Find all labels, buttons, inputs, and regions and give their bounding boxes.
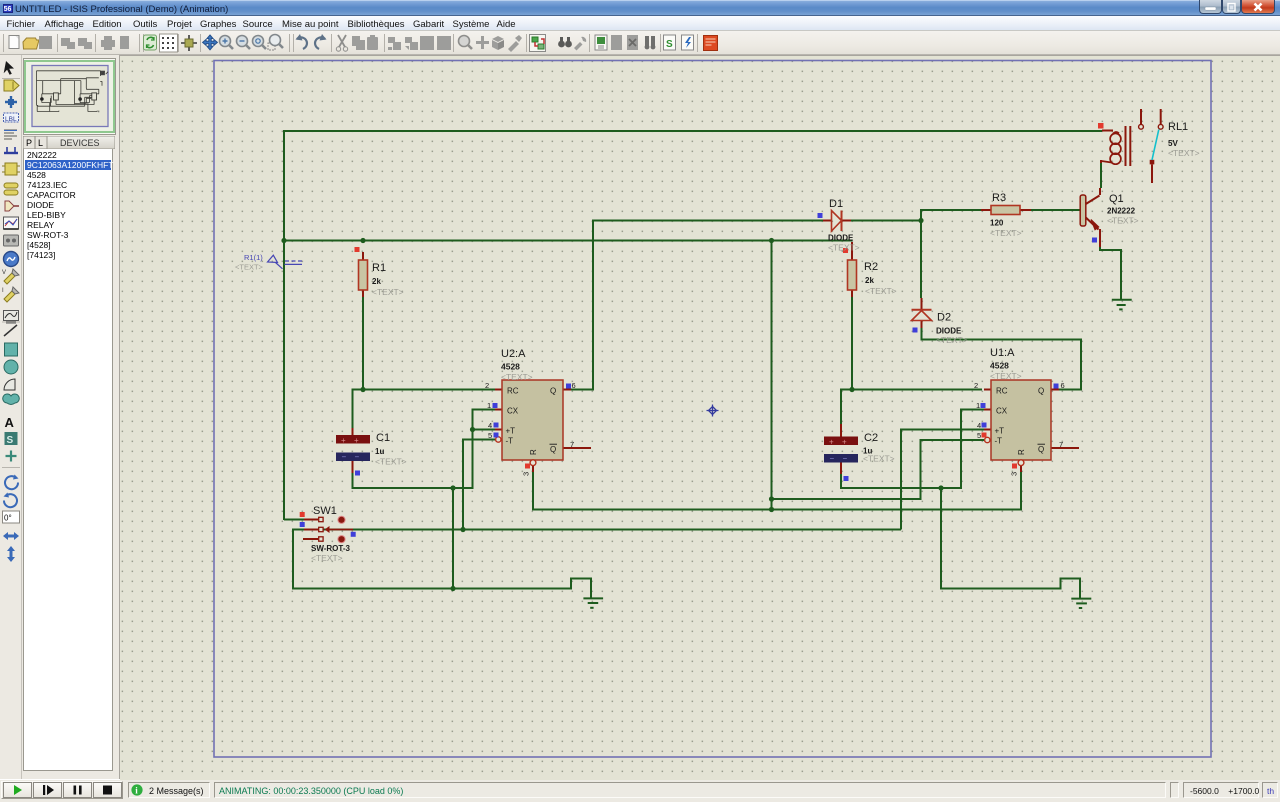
svg-text:4: 4 [488, 421, 492, 430]
svg-text:D1: D1 [829, 198, 843, 210]
svg-text:SW1: SW1 [313, 505, 337, 517]
svg-text:<TEXT>: <TEXT> [865, 286, 897, 296]
wire VCC top rail [284, 130, 1102, 132]
svg-text:Q: Q [1038, 445, 1044, 454]
svg-text:120: 120 [990, 219, 1004, 228]
svg-text:<TEXT>: <TEXT> [375, 457, 407, 467]
svg-text:DIODE: DIODE [828, 234, 854, 243]
svg-text:1u: 1u [375, 447, 384, 456]
svg-text:S: S [7, 435, 14, 446]
relay RL1 [1098, 109, 1200, 183]
svg-text:5: 5 [977, 431, 981, 440]
svg-text:2: 2 [485, 381, 489, 390]
resistor R2 [843, 242, 897, 297]
svg-text:SW-ROT-3: SW-ROT-3 [311, 544, 351, 553]
svg-text:U1:A: U1:A [990, 347, 1015, 359]
wire right ground jog [1061, 578, 1081, 598]
svg-text:7: 7 [570, 440, 574, 449]
svg-text:Q1: Q1 [1109, 193, 1124, 205]
wire R3 right to Q1 base [1030, 209, 1081, 211]
svg-text:C1: C1 [376, 432, 390, 444]
svg-text:3: 3 [522, 472, 531, 476]
wire riser x900 to U1 +T [900, 430, 984, 530]
svg-text:2N2222: 2N2222 [1107, 207, 1136, 216]
wire R1 bottom to RC line [362, 296, 364, 390]
menu bar [0, 16, 1280, 31]
wire C2 top [840, 390, 842, 425]
svg-text:5: 5 [488, 431, 492, 440]
svg-text:R2: R2 [864, 261, 878, 273]
wire D1 rail [592, 220, 921, 222]
left toolbar [0, 55, 22, 779]
svg-text:L: L [38, 138, 43, 148]
svg-text:<TEXT>: <TEXT> [936, 335, 968, 345]
wire left drop to bottom bus [292, 529, 294, 589]
wire U1 Q riser [1059, 339, 1082, 390]
svg-text:RL1: RL1 [1168, 121, 1188, 133]
wire left ground jog [571, 579, 591, 598]
svg-text:<TEXT>: <TEXT> [863, 454, 895, 464]
voltage probe R1(1) [235, 253, 302, 272]
wire C1/pin4 drop to bus [452, 488, 454, 589]
svg-text:A: A [5, 415, 15, 430]
resistor R3 [981, 192, 1031, 238]
svg-text:Q: Q [550, 387, 556, 396]
wire R2 bottom [851, 296, 853, 390]
svg-text:I: I [2, 288, 4, 294]
svg-text:<TEXT>: <TEXT> [311, 553, 343, 563]
svg-text:<TEXT>: <TEXT> [235, 263, 264, 272]
svg-text:+: + [842, 438, 847, 447]
sheet border [214, 61, 1211, 758]
svg-text:−: − [830, 454, 835, 463]
monostable U1:A 4528 [974, 347, 1079, 476]
svg-text:2k: 2k [865, 276, 874, 285]
wire x920 D1 to R3/D2 [920, 210, 922, 299]
capacitor C1 [336, 428, 407, 476]
origin marker [707, 405, 719, 417]
ground right [1071, 599, 1091, 608]
svg-text:7: 7 [1059, 440, 1063, 449]
wire reset riser x770 [771, 241, 773, 510]
svg-text:−: − [355, 453, 360, 462]
svg-text:-T: -T [506, 437, 514, 446]
svg-text:R3: R3 [992, 192, 1006, 204]
svg-text:<TEXT>: <TEXT> [828, 243, 860, 253]
svg-text:-T: -T [995, 437, 1003, 446]
wire C1 to pin4 riser [352, 410, 473, 490]
wire C1 top [352, 389, 354, 429]
svg-text:DEVICES: DEVICES [60, 138, 100, 148]
wire U2 +T pin4 [472, 429, 496, 431]
svg-text:<TEXT>: <TEXT> [501, 372, 533, 382]
wire RC line U2 [352, 389, 497, 391]
svg-text:0°: 0° [4, 514, 12, 523]
diode D1 [818, 198, 860, 253]
ground left [583, 598, 603, 607]
svg-text:−: − [843, 454, 848, 463]
junction dots [281, 218, 943, 591]
svg-text:R: R [529, 449, 538, 455]
wire U1 CX riser x960 [960, 410, 984, 489]
wire left vertical to SW1 [283, 130, 285, 520]
svg-text:<TEXT>: <TEXT> [990, 371, 1022, 381]
svg-text:C2: C2 [864, 432, 878, 444]
svg-text:+: + [341, 436, 346, 445]
svg-text:6: 6 [572, 381, 576, 390]
ground Q1 emitter [1112, 300, 1132, 310]
wire U2 -T pin5 [463, 439, 495, 530]
wire C1 bottom [352, 472, 354, 488]
svg-text:CX: CX [507, 407, 519, 416]
svg-text:V: V [2, 270, 6, 276]
side panel [22, 55, 119, 779]
svg-text:2: 2 [974, 381, 978, 390]
svg-text:Q: Q [550, 445, 556, 454]
svg-text:4528: 4528 [501, 362, 520, 372]
svg-text:U2:A: U2:A [501, 348, 526, 360]
diode D2 [912, 298, 968, 345]
wire bottom bus left [292, 588, 571, 590]
svg-text:4528: 4528 [990, 361, 1009, 371]
toolbar [0, 31, 1280, 55]
wire D2 bottom to U1 Q rail [921, 327, 1082, 340]
svg-text:+: + [829, 438, 834, 447]
wire R net bus [532, 509, 1022, 511]
wire C2 drop to right ground [940, 488, 1061, 588]
svg-text:<TEXT>: <TEXT> [1107, 216, 1139, 226]
wire SW1 top connect [284, 519, 305, 521]
svg-text:−: − [342, 453, 347, 462]
title bar [0, 0, 1280, 16]
svg-text:+T: +T [995, 427, 1005, 436]
svg-text:LBL: LBL [5, 116, 17, 123]
svg-text:Q: Q [1038, 387, 1044, 396]
svg-text:1: 1 [487, 401, 491, 410]
svg-text:<TEXT>: <TEXT> [1168, 148, 1200, 158]
svg-text:+: + [354, 436, 359, 445]
status bar [1277, 56, 1280, 779]
transistor Q1 2N2222 [1080, 188, 1138, 247]
svg-text:R: R [1017, 449, 1026, 455]
svg-text:4: 4 [977, 421, 981, 430]
svg-text:R1: R1 [372, 262, 386, 274]
svg-text:R1(1): R1(1) [244, 253, 263, 262]
rotary switch SW1 [300, 505, 356, 563]
svg-text:+T: +T [506, 427, 516, 436]
svg-text:<TEXT>: <TEXT> [990, 228, 1022, 238]
wire U1 R drop [1020, 471, 1022, 511]
svg-text:RC: RC [996, 387, 1008, 396]
svg-text:6: 6 [1061, 381, 1065, 390]
svg-text:P: P [26, 138, 32, 148]
resistor R1 [355, 247, 404, 297]
svg-text:5V: 5V [1168, 139, 1178, 148]
svg-text:S: S [666, 39, 673, 50]
svg-text:1: 1 [976, 401, 980, 410]
svg-text:D2: D2 [937, 312, 951, 324]
capacitor C2 [824, 424, 895, 481]
wire C2 bottom run [840, 472, 962, 488]
wire RC line U1 [840, 389, 982, 391]
wire SW1 common run [293, 529, 901, 531]
wire U2 R drop [532, 471, 534, 510]
wire y499 to U1 -T [772, 440, 985, 500]
wire U2 Q to D1 riser [571, 221, 593, 391]
wire second rail y=241 [283, 240, 852, 242]
wire relay coil to Q1 collector [1100, 162, 1102, 188]
svg-text:3: 3 [1010, 472, 1019, 476]
svg-text:RC: RC [507, 387, 519, 396]
wire R3 left [920, 209, 981, 211]
wire U2 CX pin1 [472, 409, 496, 411]
wire Q1 emitter to ground [1099, 246, 1121, 299]
svg-text:<TEXT>: <TEXT> [372, 287, 404, 297]
monostable U2:A 4528 [485, 348, 591, 476]
svg-text:2k: 2k [372, 277, 381, 286]
svg-text:CX: CX [996, 407, 1008, 416]
